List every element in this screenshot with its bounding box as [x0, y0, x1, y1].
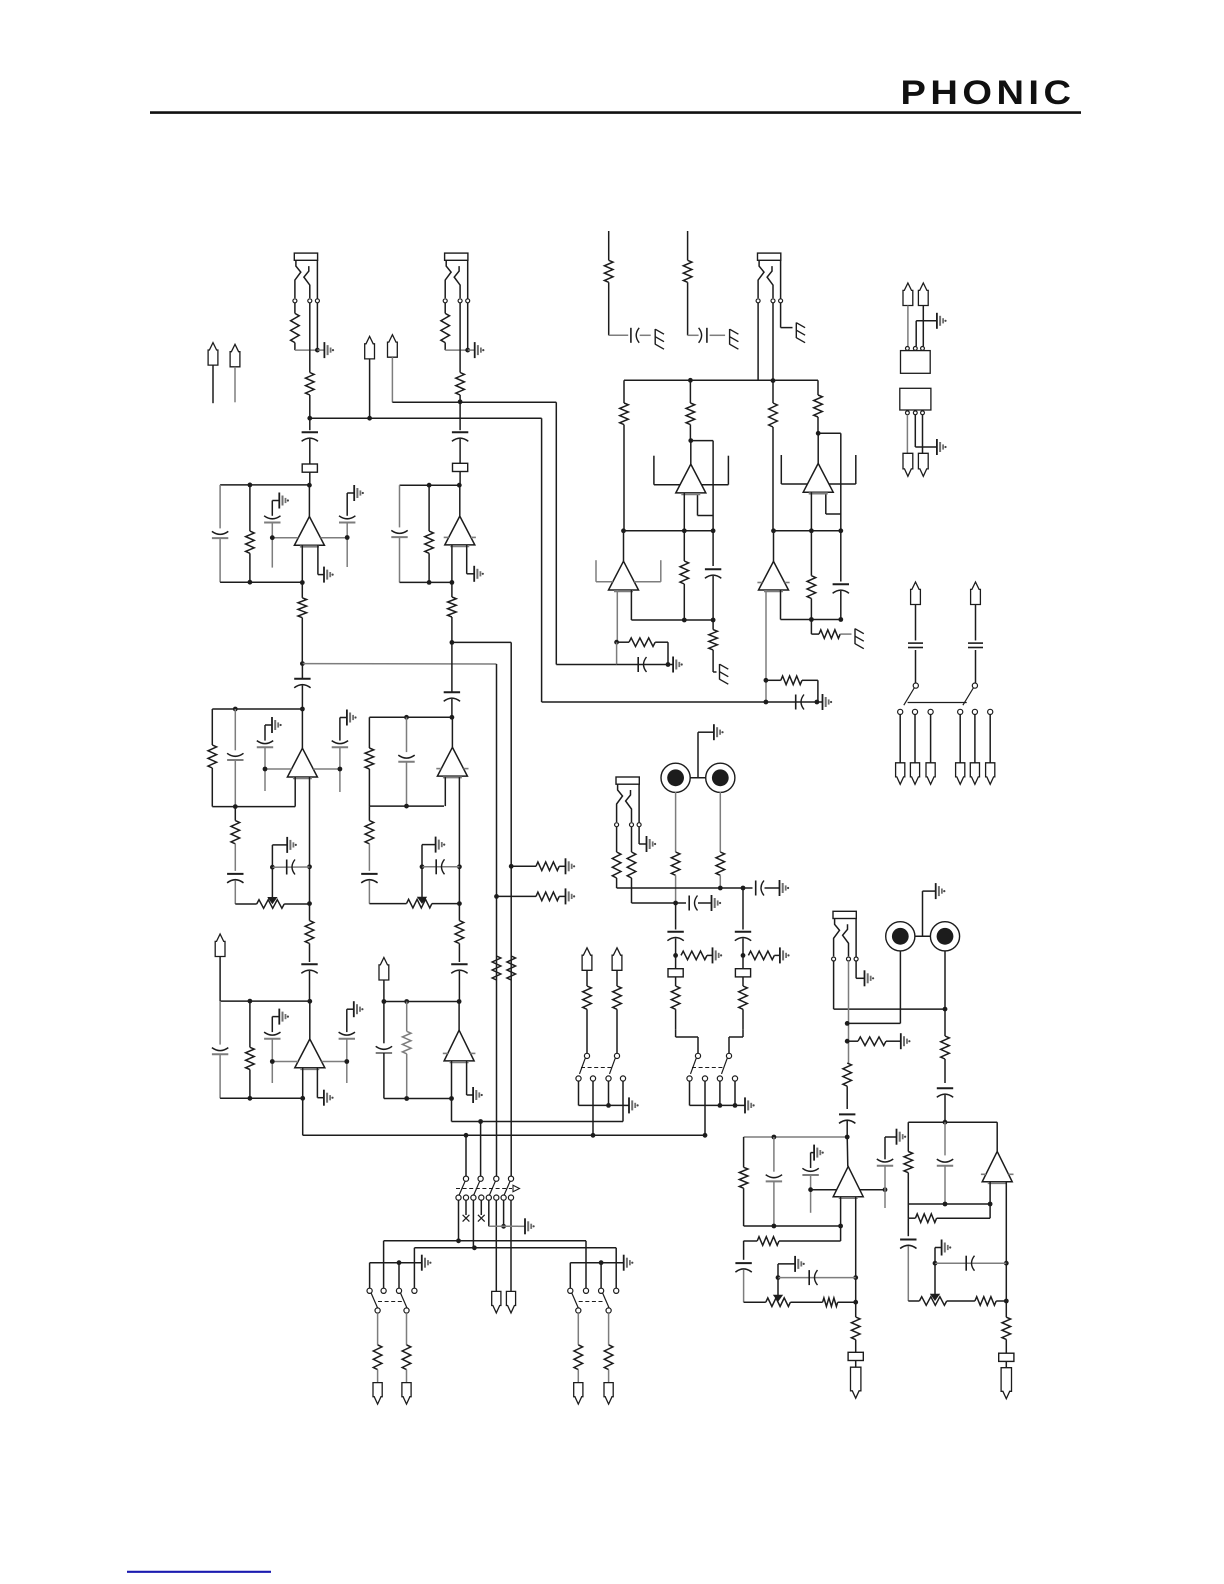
- svg-text:PHONIC: PHONIC: [901, 73, 1076, 112]
